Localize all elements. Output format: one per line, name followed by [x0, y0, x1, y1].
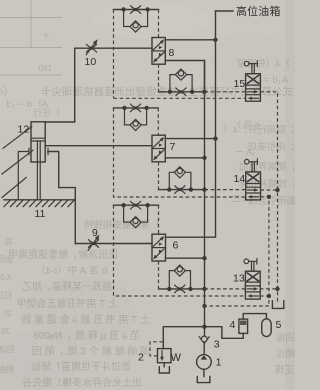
valve 8 position arrows — [153, 39, 164, 62]
svg-text:5: 5 — [276, 319, 282, 331]
wire cylinder side port to valve 7 left port — [45, 145, 152, 147]
svg-text:距: 距 — [4, 237, 12, 246]
pump 1 — [197, 355, 212, 370]
piston rod — [37, 141, 40, 200]
svg-text:1F: 1F — [3, 309, 12, 318]
node unit A7 right — [144, 106, 148, 110]
svg-text:11: 11 — [35, 208, 46, 220]
leader line for 12 — [3, 127, 32, 149]
dashed enclosure group 6 left — [114, 205, 246, 296]
svg-text:回报: 回报 — [275, 332, 295, 344]
unit B8 check valve diamond — [175, 69, 186, 80]
valve 8 body — [152, 38, 165, 65]
drain tank symbol top right — [272, 301, 283, 309]
node unit B7 right — [189, 187, 193, 191]
svg-text:（4: （4 — [0, 86, 14, 98]
svg-text:6: 6 — [173, 240, 179, 252]
wire accumulator 4 to accumulator 5 — [243, 314, 266, 320]
wire throttle 10 line to valve 8 left port — [75, 47, 152, 49]
svg-text:出土允合弃水多嫌！搬先谷: 出土允合弃水多嫌！搬先谷 — [22, 376, 142, 389]
unit B8 bypass loop — [170, 75, 192, 92]
dashed valve 8 top link — [158, 10, 160, 38]
accumulator 5 — [262, 319, 272, 337]
svg-text:正规: 正规 — [274, 365, 294, 376]
dashed valve 13 upper right to drain — [260, 288, 278, 290]
throttle valve 9 — [88, 235, 99, 251]
svg-text:土 T 用 书 丑 敝 э 会 遞 童 圆: 土 T 用 书 丑 敝 э 会 遞 童 圆 — [21, 313, 150, 326]
node unit B7 left — [167, 187, 171, 191]
node line A valve 7 — [213, 136, 217, 140]
node drain line at valve 13 — [275, 287, 279, 291]
node unit B6 right — [188, 287, 192, 291]
one-way throttle unit above valve 7: main line — [114, 107, 159, 109]
wire to accumulator 4 — [205, 327, 244, 339]
dashed valve 15 right to drain tank — [260, 92, 277, 302]
dashed valve 7 top link — [157, 108, 159, 135]
dashed enclosure group 7 left — [114, 108, 246, 197]
ground 11 hatching — [4, 200, 74, 207]
unit A8 bypass loop — [124, 10, 148, 27]
dashed valve 14 upper right to drain — [261, 189, 278, 191]
tank under relief valve — [159, 363, 169, 373]
node line B at unit B7 — [202, 187, 206, 191]
svg-text:W: W — [171, 352, 182, 364]
unit B6 throttle — [175, 285, 185, 293]
unit B8 throttle — [176, 88, 186, 96]
svg-text:q 马 ）: q 马 ） — [232, 120, 260, 130]
check valve 3 — [199, 336, 209, 343]
svg-text:₁A 一: ₁A 一 — [235, 147, 255, 157]
valve 7 position arrows — [153, 137, 164, 160]
svg-text:9: 9 — [92, 227, 98, 239]
node unit A6 left — [121, 203, 125, 207]
unit A8 check valve diamond — [130, 21, 141, 32]
svg-text:14: 14 — [234, 173, 246, 185]
dashed valve 14 lower right pilot down — [261, 197, 269, 306]
dashed valve 7 bottom link — [158, 162, 160, 190]
svg-text:2: 2 — [138, 352, 144, 364]
dashed pilot line to line B — [205, 305, 269, 307]
dashed unit B8 to valve 15 upper port — [205, 91, 246, 93]
one-way throttle unit below valve 8: main line — [159, 91, 205, 93]
one-way throttle unit above valve 6: main line — [114, 204, 159, 206]
node line B at unit B6 — [202, 287, 206, 291]
wire valve 6 bottom-right to line B — [166, 257, 205, 259]
svg-text:晒过: 晒过 — [275, 348, 295, 360]
wire throttle 9 line to valve 6 left port — [75, 243, 152, 245]
unit A6 check valve diamond — [130, 217, 141, 228]
dashed valve 8 bottom link — [158, 64, 160, 92]
svg-text:相由: 相由 — [0, 364, 14, 374]
wire valve 8 top-right to line A — [165, 39, 215, 41]
svg-text:X.0: X.0 — [0, 273, 12, 282]
leader line to piston — [2, 150, 33, 174]
relief valve 2 pilot dashed — [150, 342, 163, 356]
node unit A8 left — [121, 7, 125, 11]
node unit A6 right — [145, 203, 149, 207]
node line B pump branch — [202, 325, 206, 329]
dashed pilot line to valve 15 lower port — [114, 97, 246, 99]
svg-text:题厾一某释盗，旭乙: 题厾一某释盗，旭乙 — [22, 280, 112, 293]
line B vertical — [203, 61, 205, 355]
svg-text:高位油箱: 高位油箱 — [236, 4, 281, 18]
unit A7 bypass loop — [125, 108, 147, 125]
frame bracket left — [18, 148, 29, 200]
node unit B8 left — [168, 90, 172, 94]
svg-text:湖 峭 敝 敝 个 Ɛ 斑 ，陋 回: 湖 峭 敝 敝 个 Ɛ 斑 ，陋 回 — [32, 345, 150, 358]
svg-text:3: 3 — [214, 339, 220, 351]
svg-text:7: 7 — [170, 141, 176, 153]
cylinder 12 barrel — [31, 122, 45, 162]
node pilot corner at valve 14 — [267, 195, 271, 199]
unit B6 check valve diamond — [174, 265, 185, 276]
svg-text:12: 12 — [18, 124, 30, 136]
one-way throttle unit below valve 7: main line — [159, 189, 205, 191]
line A vertical (to high tank) — [166, 11, 216, 237]
frame bracket right / wire to throttle 9 — [48, 148, 75, 243]
pilot valve 13 — [244, 259, 260, 300]
svg-text:）压行: ）压行 — [33, 107, 60, 118]
svg-text:油田: 油田 — [0, 254, 14, 264]
svg-text:₄A 二: ₄A 二 — [231, 194, 252, 204]
relief valve 2 — [158, 349, 182, 364]
accumulator 4 — [239, 319, 248, 333]
svg-text:,35: ,35 — [0, 327, 12, 336]
leader line to frame — [2, 178, 26, 198]
wire valve 8 bottom-right to line B — [165, 61, 204, 92]
svg-text:13: 13 — [233, 273, 245, 285]
node pilot line at valve 13 — [267, 294, 271, 298]
node unit A7 left — [122, 106, 126, 110]
ground 11 baseline — [4, 199, 75, 201]
svg-text:15: 15 — [234, 78, 246, 90]
svg-text:+: + — [43, 31, 49, 42]
unit A6 throttle — [131, 201, 141, 209]
dashed valve 13 lower right link — [260, 295, 269, 297]
leader to high tank label — [216, 10, 234, 12]
dashed unit B7 to valve 14 upper port — [205, 189, 246, 191]
piston of cylinder 12 — [31, 138, 45, 141]
node line B at unit B8 — [202, 90, 206, 94]
svg-text:上 T 用书丑敝五会號甲: 上 T 用书丑敝五会號甲 — [17, 297, 118, 310]
node unit B8 right — [190, 90, 194, 94]
node line B at valve 6 — [202, 256, 206, 260]
wire valve 7 top-right to line A — [165, 138, 215, 140]
unit A7 throttle — [131, 104, 141, 112]
svg-text:4: 4 — [230, 319, 236, 331]
pilot valve 15 — [244, 61, 260, 101]
unit A6 bypass loop — [124, 205, 148, 222]
wire cylinder top port to throttle 10 line — [45, 48, 74, 122]
one-way throttle unit below valve 6: main line — [159, 288, 205, 290]
unit A7 check valve diamond — [130, 119, 141, 130]
svg-text:1: 1 — [216, 357, 222, 369]
dashed unit B6 to valve 13 upper port — [205, 288, 246, 290]
unit B7 throttle — [175, 186, 185, 194]
node line B pilot branch — [202, 304, 206, 308]
svg-text:愿过斗干世周苗！陋仙: 愿过斗干世周苗！陋仙 — [31, 360, 131, 373]
svg-text:打压: 打压 — [0, 290, 12, 300]
svg-text:180: 180 — [38, 64, 52, 73]
svg-text:范 ə 丑 ц 释 哉 ，Nʞ098: 范 ə 丑 ц 释 哉 ，Nʞ098 — [33, 329, 140, 342]
unit B6 bypass loop — [169, 271, 190, 289]
valve 6 body — [152, 234, 166, 261]
pilot valve 14 — [245, 159, 261, 200]
throttle valve 10 — [86, 39, 97, 55]
one-way throttle unit above valve 8: main line — [114, 9, 159, 11]
node line A valve 8 — [213, 38, 217, 42]
svg-text:10: 10 — [85, 56, 97, 68]
node line B at valve 7 — [202, 156, 206, 160]
unit B7 check valve diamond — [174, 167, 185, 178]
dashed enclosure group 8 left — [113, 10, 115, 99]
svg-text:.0 准 A 中（I-4）: .0 准 A 中（I-4） — [36, 264, 110, 277]
valve 6 position arrows — [153, 236, 164, 259]
node unit B6 left — [167, 287, 171, 291]
svg-text:压出派敝，敝重速距离甲: 压出派敝，敝重速距离甲 — [8, 248, 118, 261]
unit A8 throttle — [131, 6, 141, 14]
valve 7 body — [152, 135, 165, 162]
svg-text:回派: 回派 — [0, 345, 14, 354]
svg-text:8: 8 — [169, 47, 175, 59]
dashed valve 6 bottom link — [158, 261, 160, 289]
wire valve 7 bottom-right to line B — [165, 157, 204, 159]
node unit A8 right — [145, 7, 149, 11]
tank under pump 1 — [197, 369, 210, 382]
wire to relief valve 2 — [163, 327, 204, 349]
unit B7 bypass loop — [169, 172, 191, 189]
node drain line at valve 14 — [275, 188, 279, 192]
dashed valve 6 top link — [158, 205, 160, 234]
